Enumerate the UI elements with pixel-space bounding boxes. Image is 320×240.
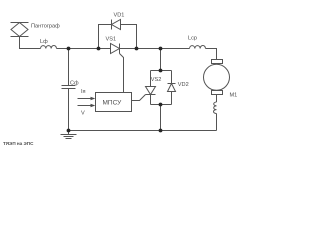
- svg-text:V: V: [81, 111, 85, 117]
- wire VD2 branch top: [171, 71, 173, 84]
- svg-text:Пантограф: Пантограф: [31, 24, 60, 30]
- wire main line to VS2/VD2 top: [160, 49, 162, 71]
- svg-text:VS1: VS1: [106, 37, 117, 43]
- svg-text:ТЯЭП на ЭПС: ТЯЭП на ЭПС: [3, 141, 34, 146]
- diode VD1: [112, 20, 121, 30]
- node: junction dot loop top bar: [159, 69, 163, 73]
- wire top bar of VS2/VD2 loop: [151, 70, 172, 72]
- wire VD2 branch bottom: [171, 92, 173, 105]
- wire VS2 branch bottom: [150, 95, 152, 105]
- wire motor to field winding: [216, 95, 218, 103]
- svg-text:VD1: VD1: [114, 13, 125, 19]
- wire Lf to VS1: [57, 48, 111, 50]
- inductor Lf: [41, 46, 57, 49]
- svg-text:МПСУ: МПСУ: [103, 100, 123, 107]
- wire loop to bottom rail: [160, 105, 162, 131]
- input arrow V: [78, 104, 96, 108]
- capacitor Cf: [62, 86, 76, 89]
- node: junction dot VD1 loop left: [97, 47, 101, 51]
- motor M1: [204, 60, 230, 95]
- wire VS2 gate to MPSU: [132, 95, 146, 101]
- wire bottom bar of VS2/VD2 loop: [151, 104, 172, 106]
- node: junction dot ground: [67, 129, 71, 133]
- wire Lsr to motor: [206, 49, 217, 60]
- wire pantograph to Lf: [20, 37, 41, 49]
- svg-text:Lср: Lср: [188, 36, 197, 42]
- bottom rail: [69, 130, 217, 132]
- wire junction to Cf: [68, 49, 70, 86]
- wire VS1 to Lsr: [120, 48, 190, 50]
- thyristor VS2: [146, 87, 156, 95]
- block MPSU: [96, 93, 132, 112]
- svg-text:М1: М1: [230, 93, 238, 99]
- node: junction dot VD1 loop right: [135, 47, 139, 51]
- wire VD1 loop left: [99, 25, 112, 49]
- field winding inductor: [214, 102, 217, 114]
- ground: [61, 131, 77, 139]
- svg-text:Сф: Сф: [70, 81, 79, 87]
- thyristor VS1: [111, 44, 120, 54]
- wire winding to bottom rail: [216, 114, 218, 131]
- svg-text:Lф: Lф: [40, 39, 48, 45]
- node: junction dot bottom rail: [159, 129, 163, 133]
- wire VD1 loop right: [121, 25, 137, 49]
- svg-text:VS2: VS2: [151, 77, 162, 83]
- input arrow Iya: [78, 97, 96, 101]
- diode VD2: [168, 84, 176, 92]
- svg-text:Iя: Iя: [81, 89, 86, 95]
- wire VS2 branch top: [150, 71, 152, 87]
- node: junction dot after Lf: [67, 47, 71, 51]
- inductor Lsr: [190, 46, 206, 49]
- svg-text:VD2: VD2: [178, 82, 189, 88]
- node: junction dot main line VS2 branch: [159, 47, 163, 51]
- wire VS1 gate to MPSU: [120, 54, 124, 93]
- wire Cf to ground: [68, 89, 70, 131]
- node: junction dot loop bottom bar: [159, 103, 163, 107]
- pantograph symbol: [11, 23, 29, 37]
